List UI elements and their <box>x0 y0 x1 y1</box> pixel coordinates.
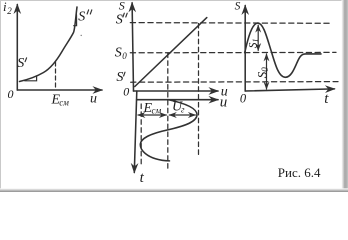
svg-text:u: u <box>90 92 97 107</box>
svg-text:г: г <box>181 105 185 115</box>
svg-text:S: S <box>235 1 241 13</box>
svg-text:Рис. 6.4: Рис. 6.4 <box>278 165 321 180</box>
svg-text:см: см <box>59 97 69 107</box>
svg-text:u: u <box>220 95 228 111</box>
svg-text:см: см <box>152 105 162 115</box>
svg-text:S: S <box>78 10 85 25</box>
svg-text:0: 0 <box>123 85 129 99</box>
svg-text:S: S <box>17 56 24 71</box>
svg-text:t: t <box>140 170 145 186</box>
svg-text:S: S <box>119 0 125 13</box>
svg-text:2: 2 <box>7 6 12 16</box>
svg-text:0: 0 <box>8 87 14 101</box>
svg-text:S1: S1 <box>247 39 260 49</box>
svg-text:0: 0 <box>240 91 247 105</box>
svg-text:S0: S0 <box>254 67 270 79</box>
svg-text:t: t <box>324 91 329 107</box>
svg-text:S: S <box>116 13 123 28</box>
svg-text:0: 0 <box>122 51 127 61</box>
svg-text:S: S <box>116 70 123 85</box>
svg-text:S: S <box>115 46 122 61</box>
